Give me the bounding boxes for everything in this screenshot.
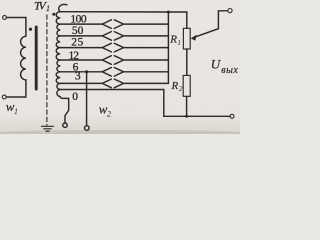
svg-text:2: 2 xyxy=(107,110,111,119)
svg-text:1: 1 xyxy=(177,38,181,47)
svg-text:1: 1 xyxy=(14,107,18,116)
svg-text:R: R xyxy=(171,80,179,92)
svg-text:U: U xyxy=(211,56,222,71)
svg-text:12: 12 xyxy=(69,50,80,62)
svg-text:R: R xyxy=(169,34,177,46)
svg-text:вых: вых xyxy=(221,65,238,76)
svg-text:2: 2 xyxy=(179,84,183,93)
svg-text:100: 100 xyxy=(70,13,86,25)
svg-text:25: 25 xyxy=(71,37,83,49)
svg-text:50: 50 xyxy=(72,25,84,37)
svg-text:3: 3 xyxy=(75,70,81,82)
svg-text:1: 1 xyxy=(46,4,50,13)
svg-text:0: 0 xyxy=(72,91,78,103)
